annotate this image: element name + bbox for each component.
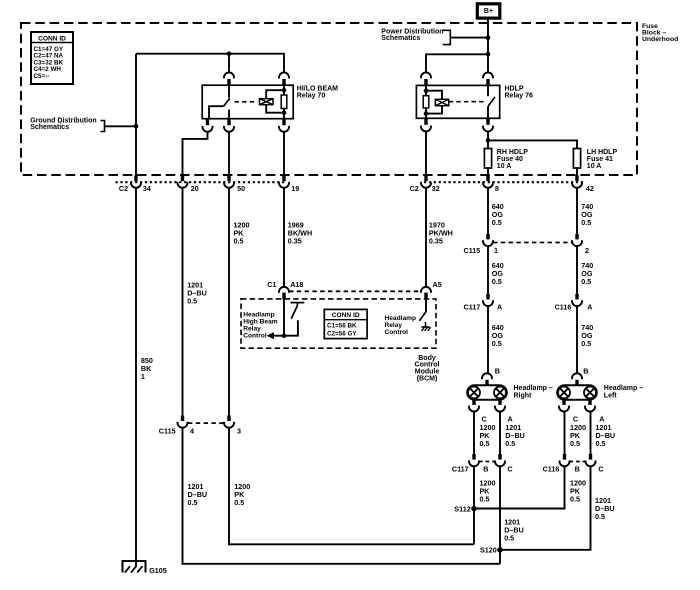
svg-text:C5=--: C5=-- (34, 73, 50, 80)
svg-text:4: 4 (190, 427, 194, 436)
wire: fuse 41 to pin 42 (576, 168, 578, 176)
svg-text:C117: C117 (464, 303, 481, 312)
relay 76 resistor (423, 96, 429, 108)
svg-text:A5: A5 (433, 280, 442, 289)
svg-text:C116: C116 (543, 465, 560, 474)
svg-text:0.5: 0.5 (187, 297, 197, 306)
junction dot at ground distribution tap (134, 124, 139, 129)
svg-text:Right: Right (514, 392, 533, 399)
wire: Power Distribution tap (450, 37, 488, 39)
wire: 1969 BK/WH from pin 19 to BCM A18 (283, 187, 285, 286)
svg-text:LH HDLP: LH HDLP (587, 149, 618, 156)
svg-text:19: 19 (291, 184, 299, 193)
relay 70 bottom pin to pin 20 (connector) (206, 119, 209, 126)
svg-text:RH HDLP: RH HDLP (497, 149, 528, 156)
relay 76 switch pin connector (top) (483, 72, 493, 78)
svg-text:A: A (497, 303, 502, 312)
wire: 1200 PK from C115-3 to S112 run (229, 427, 474, 544)
wire: relay 70 common to pin 20 (183, 131, 208, 176)
wire: A18 into BCM (283, 299, 285, 336)
svg-text:C2=56 GY: C2=56 GY (327, 330, 357, 337)
svg-text:Relay 76: Relay 76 (505, 93, 534, 100)
svg-text:0.35: 0.35 (429, 237, 443, 246)
lamp: Headlamp - Right (bulb with B/C/A pins) (482, 373, 492, 379)
relay 76 switch fixed contact (top) (487, 85, 489, 96)
svg-text:CONN ID: CONN ID (332, 312, 360, 319)
connector C2 pin 42 (575, 176, 578, 182)
connector C116 pin C (589, 454, 592, 460)
svg-text:C1=56 BK: C1=56 BK (327, 322, 357, 329)
relay 70 coil junction dots (282, 88, 287, 93)
relay 70 switch common wire (209, 106, 224, 119)
connector C115 pin 1 (486, 234, 489, 240)
relay 76 coil wire loop (426, 91, 442, 114)
svg-text:0.5: 0.5 (581, 218, 591, 227)
svg-text:50: 50 (237, 184, 245, 193)
wire: 740 OG C115-2 to C116-A (576, 246, 578, 294)
svg-text:Headlamp –: Headlamp – (514, 385, 553, 392)
svg-text:Control: Control (243, 333, 267, 340)
svg-text:C115: C115 (159, 427, 176, 436)
svg-text:1: 1 (494, 246, 498, 255)
svg-text:0.5: 0.5 (480, 439, 490, 448)
svg-text:0.5: 0.5 (570, 495, 580, 504)
junction dot at fuse branch (486, 138, 491, 143)
svg-text:Headlamp –: Headlamp – (604, 385, 643, 392)
svg-text:0.5: 0.5 (595, 512, 605, 521)
svg-text:C115: C115 (464, 246, 481, 255)
svg-text:High Beam: High Beam (243, 319, 278, 326)
svg-text:10 A: 10 A (587, 163, 602, 170)
svg-text:0.5: 0.5 (581, 277, 591, 286)
svg-text:0.5: 0.5 (188, 498, 198, 507)
wire: 850 BK ground wire (135, 187, 137, 567)
svg-text:Left: Left (604, 392, 618, 399)
connector C116 dashed link (B-C) (570, 461, 586, 463)
svg-text:0.5: 0.5 (505, 439, 515, 448)
connector C116 pin B (563, 454, 566, 460)
svg-text:8: 8 (495, 184, 499, 193)
wire: A5 into BCM (425, 299, 427, 313)
BCM connector pin A18 (279, 287, 289, 293)
relay 70 coil feed wire (283, 85, 285, 119)
BCM headlamp relay driver switch blade (419, 312, 425, 321)
ground G105 symbol (123, 561, 146, 573)
relay 76 coil pin connector (top) (421, 72, 431, 78)
relay 70 resistor (281, 95, 287, 109)
relay 76 bottom pin to pin 32 (connector) (424, 118, 427, 125)
wire: relay 76 output to fuse 40 (487, 131, 489, 149)
svg-text:HI/LO BEAM: HI/LO BEAM (297, 86, 338, 93)
svg-text:A: A (587, 303, 592, 312)
connector C2 pin 19 (282, 176, 285, 182)
svg-text:Underhood: Underhood (642, 36, 678, 43)
svg-text:0.5: 0.5 (581, 339, 591, 348)
wire: fuse 40 to pin 8 (487, 168, 489, 176)
wire: left rail down to pin 34 (135, 54, 137, 176)
splice S120 (497, 547, 503, 553)
power symbol B+ box (477, 4, 500, 18)
relay 76 switch output wire (487, 106, 489, 118)
body control module dashed box (241, 299, 436, 348)
connector C117 pin C (498, 454, 501, 460)
junction dot on top rail (227, 51, 232, 56)
connector C117 pin A (486, 294, 489, 300)
connector C2 pin 8 (486, 176, 489, 182)
svg-text:Fuse 41: Fuse 41 (587, 156, 613, 163)
BCM connector pin A5 (421, 287, 431, 293)
svg-text:Schematics: Schematics (30, 124, 69, 131)
CONN ID table (fuse block) (31, 32, 73, 84)
wire: branch to fuse 41 (488, 140, 577, 148)
svg-text:Headlamp: Headlamp (243, 312, 275, 319)
relay 70 coil wire loop (266, 90, 284, 113)
fuse F40 RH HDLP (484, 149, 491, 169)
wire: 640 OG C117-A to headlamp right B (487, 306, 489, 373)
wire: 1201 D-BU from C115-4 to S120 run (183, 427, 501, 563)
relay 70 switch lower contact (228, 110, 230, 119)
svg-text:Relay: Relay (243, 326, 261, 333)
svg-text:10 A: 10 A (497, 163, 512, 170)
wire: 640 OG pin 8 to C115-1 (487, 187, 489, 234)
wire: 740 OG pin 42 to C115-2 (576, 187, 578, 234)
BCM high beam driver arrow (273, 335, 284, 337)
svg-text:Fuse 40: Fuse 40 (497, 156, 523, 163)
svg-text:Schematics: Schematics (381, 35, 420, 42)
svg-text:1: 1 (141, 372, 145, 381)
relay 76 coil symbol (crossed box) (435, 99, 448, 105)
connector C115 dashed link (pins 1-2) (493, 242, 572, 244)
svg-text:0.5: 0.5 (480, 495, 490, 504)
wire: branch to relay 76 coil pin (426, 54, 488, 72)
svg-text:B: B (483, 465, 488, 474)
connector C116 pin A (575, 294, 578, 300)
relay 70 coil dashed actuator line (235, 101, 258, 103)
connector C117 pin B (472, 454, 475, 460)
svg-text:0.5: 0.5 (596, 439, 606, 448)
relay 70 switch blade (224, 98, 230, 106)
wire: B+ down to HDLP relay 76 switch pin (487, 18, 489, 72)
svg-text:S120: S120 (480, 546, 497, 555)
wire: left lamp C to C116-B (564, 411, 566, 454)
svg-text:A18: A18 (290, 280, 303, 289)
svg-text:0.5: 0.5 (492, 218, 502, 227)
relay 70 bottom pin to pin 50 (connector) (227, 119, 230, 126)
junction dot at B+/power distribution tap (486, 35, 491, 40)
svg-text:HDLP: HDLP (505, 86, 524, 93)
relay 70 bottom pin to pin 19 (connector) (282, 119, 285, 126)
wire: top rail to HI/LO relay 70 (136, 54, 284, 72)
svg-text:32: 32 (432, 184, 440, 193)
connector C115 dashed link (pins 4-3) (188, 422, 224, 424)
svg-text:C2: C2 (119, 184, 128, 193)
svg-text:S112: S112 (454, 505, 470, 514)
wire: 640 OG C115-1 to C117-A (487, 246, 489, 294)
svg-text:G105: G105 (149, 566, 167, 575)
wire: 740 OG C116-A to headlamp left B (576, 306, 578, 373)
connector C115 pin 3 (227, 415, 230, 421)
svg-text:0.5: 0.5 (234, 237, 244, 246)
svg-text:B+: B+ (484, 8, 493, 15)
wire: C116-C down to S120 run (500, 466, 591, 550)
splice S112 (471, 506, 477, 512)
relay 76 coil feed wire (425, 85, 427, 118)
wire: Ground Distribution tap (105, 125, 137, 127)
wire: C117-C down to S120 (499, 466, 501, 550)
wire: relay 76 coil to pin 32 (425, 131, 427, 176)
wire: C116-B down and over to S112 (474, 466, 565, 509)
svg-text:0.5: 0.5 (570, 439, 580, 448)
svg-text:Control: Control (385, 329, 409, 336)
wire: S120 down to 1201 D-BU run (499, 550, 501, 564)
svg-text:3: 3 (237, 427, 241, 436)
svg-text:Relay 70: Relay 70 (297, 93, 326, 100)
wire: S112 down to 1200 PK run (473, 509, 475, 545)
svg-text:CONN ID: CONN ID (38, 35, 66, 42)
relay 76 coil dashed actuator line (449, 101, 484, 103)
wire: 1970 PK/WH from pin 32 to BCM A5 (425, 187, 427, 286)
wire: 1200 PK from pin 50 to C115-3 (228, 187, 230, 416)
svg-text:C117: C117 (452, 465, 469, 474)
svg-text:2: 2 (585, 246, 589, 255)
BCM connector dotted line (289, 290, 420, 292)
BCM internal ground symbol (425, 322, 427, 327)
svg-text:34: 34 (143, 184, 151, 193)
wire: right lamp A to C117-C (499, 411, 501, 454)
relay 76 coil junction dots (424, 88, 429, 93)
wire: relay 70 coil to pin 19 (283, 131, 285, 176)
svg-text:0.5: 0.5 (504, 534, 514, 543)
BCM high beam driver switch (290, 302, 304, 304)
fuse F41 LH HDLP (573, 149, 580, 169)
connector C2 pin 32 (424, 176, 427, 182)
svg-text:(BCM): (BCM) (417, 376, 438, 383)
wire: 1201 D-BU from pin 20 to C115-4 (182, 187, 184, 416)
relay 70 coil symbol (crossed box) (260, 99, 274, 105)
relay 70 switch pin connector (top) (224, 72, 234, 78)
lamp: Headlamp - Left (bulb with B/C/A pins) (572, 373, 582, 379)
connector C117 dashed link (B-C) (479, 461, 495, 463)
svg-text:20: 20 (191, 184, 199, 193)
connector C2 pin 50 (227, 176, 230, 182)
junction dot A18/high beam driver (282, 333, 287, 338)
connector C2 row dotted line (right) (424, 181, 583, 183)
relay K76 HDLP box (416, 85, 499, 118)
connector C2 pin 34 (134, 176, 137, 182)
svg-text:B: B (575, 465, 580, 474)
svg-text:C: C (507, 465, 512, 474)
connector C115 pin 2 (575, 234, 578, 240)
svg-text:0.5: 0.5 (492, 277, 502, 286)
junction dot on B+ wire (486, 52, 491, 57)
relay 76 switch blade (488, 97, 495, 107)
svg-text:C1: C1 (267, 280, 276, 289)
connector C115 pin 4 (181, 415, 184, 421)
wire: relay 70 lower contact to pin 50 (228, 131, 230, 176)
svg-text:0.35: 0.35 (288, 237, 302, 246)
wire: right lamp C to C117-B (473, 411, 475, 454)
relay 70 switch fixed contact (top) (228, 85, 230, 98)
wire: C117-B down to S112 (473, 466, 475, 509)
wire: relay 70 switch pin drop (228, 54, 230, 72)
relay 70 coil pin connector (top) (279, 72, 289, 78)
CONN ID table (BCM) (324, 309, 367, 338)
svg-text:C2: C2 (410, 184, 419, 193)
relay K70 HI/LO BEAM box (202, 85, 293, 119)
connector C2 row dotted line (left) (116, 181, 286, 183)
svg-text:B: B (495, 367, 500, 376)
connector C2 pin 20 (181, 176, 184, 182)
svg-text:C: C (598, 465, 603, 474)
svg-text:0.5: 0.5 (234, 498, 244, 507)
svg-text:42: 42 (586, 184, 594, 193)
relay 76 bottom pin to fuses (connector) (486, 118, 489, 125)
svg-text:B: B (583, 367, 588, 376)
fuse block - underhood dashed border box (21, 23, 637, 175)
wire: left lamp A to C116-C (590, 411, 592, 454)
svg-text:0.5: 0.5 (492, 339, 502, 348)
svg-text:C116: C116 (555, 303, 572, 312)
